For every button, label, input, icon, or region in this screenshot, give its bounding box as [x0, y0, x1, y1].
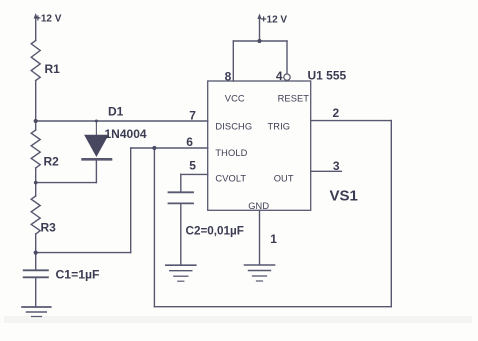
svg-text:7: 7	[189, 109, 196, 123]
svg-text:1N4004: 1N4004	[105, 127, 147, 141]
svg-text:5: 5	[189, 158, 196, 172]
svg-text:VCC: VCC	[225, 93, 245, 103]
svg-text:4: 4	[276, 69, 283, 83]
svg-text:GND: GND	[248, 201, 269, 211]
svg-text:OUT: OUT	[274, 173, 294, 183]
svg-text:2: 2	[333, 106, 340, 120]
svg-text:3: 3	[333, 159, 340, 173]
svg-text:U1 555: U1 555	[308, 69, 347, 83]
svg-text:C1=1µF: C1=1µF	[56, 267, 100, 281]
svg-text:R3: R3	[41, 221, 57, 235]
svg-text:CVOLT: CVOLT	[215, 173, 246, 183]
svg-text:TRIG: TRIG	[268, 122, 291, 132]
svg-text:VS1: VS1	[330, 187, 358, 204]
svg-text:D1: D1	[108, 105, 124, 119]
svg-text:8: 8	[225, 69, 232, 83]
svg-text:+12 V: +12 V	[35, 14, 62, 25]
svg-text:6: 6	[186, 135, 193, 149]
svg-text:R2: R2	[44, 155, 60, 169]
svg-text:1: 1	[270, 232, 277, 246]
svg-text:THOLD: THOLD	[215, 148, 247, 158]
svg-text:DISCHG: DISCHG	[215, 122, 252, 132]
svg-text:C2=0,01µF: C2=0,01µF	[186, 224, 244, 237]
svg-text:+12 V: +12 V	[261, 14, 288, 25]
svg-text:R1: R1	[45, 62, 61, 76]
svg-text:RESET: RESET	[278, 93, 310, 103]
